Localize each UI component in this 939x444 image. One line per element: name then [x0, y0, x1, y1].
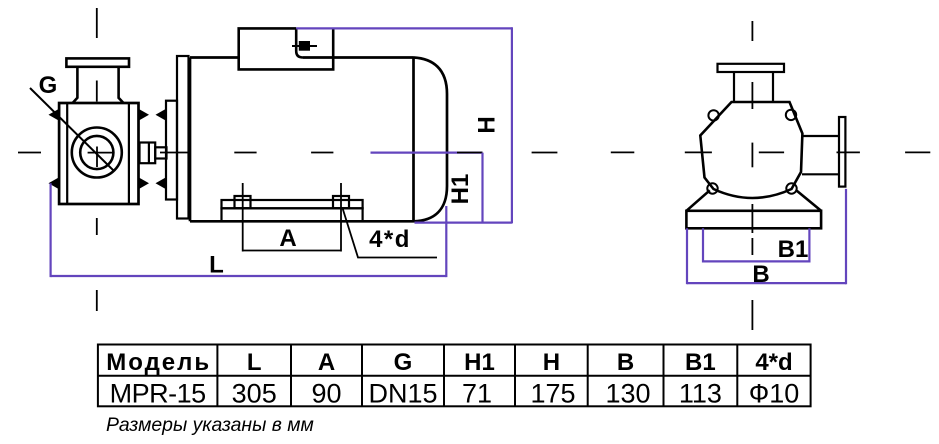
- dimension H vertical: [511, 27, 513, 223]
- dimension H1 top line: [371, 152, 483, 154]
- motor body outline: [190, 58, 414, 222]
- cable gland square: [299, 41, 310, 51]
- clamp triangle pump right bottom: [138, 177, 149, 190]
- dimension B right vertical: [845, 189, 847, 284]
- shaft: [155, 147, 166, 158]
- dimension B bottom line: [687, 282, 846, 284]
- horizontal centerline dashes (left view): [18, 152, 557, 154]
- coupling divider: [148, 143, 150, 164]
- svg-text:90: 90: [311, 379, 341, 409]
- pump suction neck: [73, 67, 124, 103]
- clamp triangle adapter left bottom: [156, 177, 167, 190]
- dimension H1 vertical: [481, 153, 483, 223]
- terminal box: [239, 28, 334, 69]
- svg-text:A: A: [279, 225, 296, 252]
- pump body inner vertical left: [66, 103, 68, 204]
- svg-text:305: 305: [232, 379, 277, 409]
- pump port inner circle: [80, 136, 113, 169]
- motor foot lower plate: [222, 208, 363, 221]
- svg-text:B: B: [617, 349, 634, 376]
- motor adapter plate: [166, 101, 177, 200]
- foot bolt left: [235, 196, 251, 208]
- dimension L bottom line: [51, 275, 447, 277]
- pump port outer circle: [72, 128, 122, 178]
- pump suction flange plate (top): [66, 58, 129, 66]
- svg-text:B: B: [752, 261, 769, 288]
- svg-text:L: L: [209, 252, 224, 279]
- dimension B1 left vertical: [702, 228, 704, 262]
- svg-text:Ф10: Ф10: [749, 379, 800, 409]
- bolt hole top-right: [786, 110, 796, 120]
- shaft coupling box: [140, 143, 156, 164]
- bolt hole bottom-left: [707, 183, 717, 193]
- clamp triangle pump left top: [49, 109, 60, 122]
- svg-text:Модель: Модель: [106, 349, 211, 376]
- clamp triangle pump left bottom: [49, 177, 60, 190]
- port crosshair: [88, 147, 115, 168]
- pedestal left slant: [686, 190, 709, 211]
- dimension B1 bottom line: [703, 260, 809, 262]
- right view top flange plate: [718, 64, 785, 72]
- dimension H top line: [296, 27, 512, 29]
- dimension B left vertical: [686, 228, 688, 284]
- dimension H bottom line: [415, 222, 512, 224]
- table data row: [110, 379, 800, 409]
- cable gland line: [292, 45, 317, 47]
- bolt centerline left / A extension: [242, 183, 244, 252]
- table header row: [106, 349, 792, 376]
- svg-text:A: A: [318, 349, 335, 376]
- svg-text:113: 113: [679, 379, 722, 409]
- svg-text:G: G: [39, 72, 58, 99]
- table grid: [98, 345, 811, 407]
- svg-text:L: L: [247, 349, 262, 376]
- clamp triangle pump right top: [138, 109, 149, 122]
- svg-text:G: G: [394, 349, 413, 376]
- 4*d leader: [343, 209, 437, 258]
- svg-text:71: 71: [462, 379, 492, 409]
- foot bolt right: [333, 196, 349, 208]
- dimension B1 right vertical: [808, 228, 810, 262]
- G leader diagonal: [30, 88, 114, 171]
- svg-text:B1: B1: [778, 236, 809, 263]
- svg-text:130: 130: [605, 379, 650, 409]
- svg-text:4*d: 4*d: [369, 226, 411, 253]
- svg-text:Размеры указаны в мм: Размеры указаны в мм: [106, 414, 314, 436]
- svg-text:MPR-15: MPR-15: [110, 379, 206, 409]
- svg-text:H: H: [543, 349, 560, 376]
- volute casing octagon: [700, 102, 802, 198]
- pump body inner vertical right: [128, 103, 130, 204]
- pedestal base plate: [686, 211, 821, 229]
- svg-text:B1: B1: [685, 349, 716, 376]
- right view top flange neck: [734, 72, 773, 102]
- motor foot upper plate: [222, 200, 363, 208]
- pedestal right slant: [796, 190, 821, 211]
- terminal box gland outline: [296, 28, 303, 57]
- bolt hole top-left: [708, 110, 718, 120]
- dimension L left vertical: [49, 183, 51, 277]
- svg-text:175: 175: [530, 379, 575, 409]
- right view horizontal centerline dashes: [611, 151, 931, 153]
- A dimension line: [243, 250, 341, 252]
- motor end cap: [414, 58, 448, 222]
- bolt hole bottom-right: [786, 183, 796, 193]
- svg-text:4*d: 4*d: [755, 349, 792, 376]
- bolt centerline right / A extension: [340, 183, 342, 252]
- pump vertical centerline dashes (left view): [96, 8, 98, 311]
- svg-text:H: H: [474, 116, 501, 133]
- svg-text:H1: H1: [464, 349, 495, 376]
- right view vertical centerline dashes: [751, 21, 753, 330]
- centerline dash over H1 line: [457, 152, 483, 154]
- dimension L right vertical: [445, 206, 447, 277]
- svg-text:DN15: DN15: [368, 379, 437, 409]
- right view discharge flange plate: [839, 117, 845, 187]
- clamp triangle adapter left top: [156, 109, 167, 122]
- motor front flange: [177, 56, 189, 219]
- right view discharge neck: [802, 136, 839, 174]
- pump body: [59, 103, 138, 204]
- svg-text:H1: H1: [447, 174, 474, 205]
